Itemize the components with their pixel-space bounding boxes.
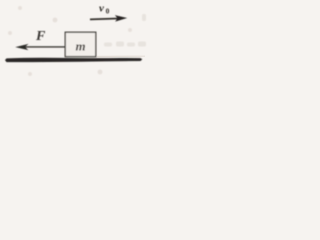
v0 arrow shaft bbox=[90, 18, 118, 21]
paper background bbox=[0, 0, 147, 84]
svg-text:0: 0 bbox=[106, 6, 110, 15]
F arrowhead bbox=[15, 44, 28, 50]
v0 arrowhead bbox=[115, 15, 127, 22]
svg-text:v: v bbox=[99, 2, 104, 14]
svg-text:F: F bbox=[35, 29, 46, 44]
svg-text:m: m bbox=[75, 38, 85, 53]
ground bbox=[5, 58, 142, 62]
wire F arrow shaft bbox=[24, 46, 65, 48]
scan smudges right of block bbox=[104, 14, 146, 47]
faint surface artifact line right of block bbox=[97, 55, 145, 57]
scan noise bbox=[8, 6, 132, 76]
block m bbox=[65, 32, 96, 56]
